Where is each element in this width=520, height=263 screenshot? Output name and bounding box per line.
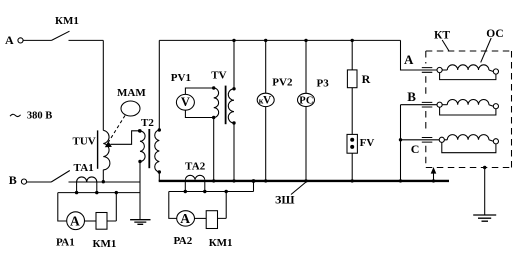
svg-text:ТUV: ТUV xyxy=(73,135,96,147)
svg-text:КТ: КТ xyxy=(434,30,450,42)
svg-text:РА2: РА2 xyxy=(174,235,193,247)
svg-text:А: А xyxy=(404,52,414,67)
svg-text:РV2: РV2 xyxy=(272,77,293,89)
svg-text:А: А xyxy=(5,33,14,47)
svg-text:ТА1: ТА1 xyxy=(74,162,94,174)
svg-text:Р3: Р3 xyxy=(317,78,330,90)
svg-text:380 В: 380 В xyxy=(27,111,52,122)
svg-text:R: R xyxy=(362,72,371,86)
svg-text:МАМ: МАМ xyxy=(117,87,146,99)
svg-text:РV1: РV1 xyxy=(171,72,191,84)
svg-text:С: С xyxy=(411,142,420,156)
svg-text:КМ1: КМ1 xyxy=(93,238,117,250)
svg-text:В: В xyxy=(407,89,416,104)
svg-text:V: V xyxy=(263,95,272,107)
svg-text:А: А xyxy=(70,214,80,229)
svg-text:ТV: ТV xyxy=(211,70,226,82)
svg-text:КМ1: КМ1 xyxy=(55,15,79,27)
svg-text:ТА2: ТА2 xyxy=(185,161,206,173)
svg-text:КМ1: КМ1 xyxy=(209,237,233,249)
svg-text:ОС: ОС xyxy=(486,28,503,40)
svg-text:В: В xyxy=(9,173,17,187)
svg-text:А: А xyxy=(180,211,190,226)
svg-text:ЗШ: ЗШ xyxy=(275,193,295,207)
svg-text:РС: РС xyxy=(299,96,313,107)
svg-text:РА1: РА1 xyxy=(56,237,75,249)
svg-text:V: V xyxy=(181,95,190,109)
svg-text:Т2: Т2 xyxy=(141,117,154,129)
svg-text:FV: FV xyxy=(360,137,375,149)
